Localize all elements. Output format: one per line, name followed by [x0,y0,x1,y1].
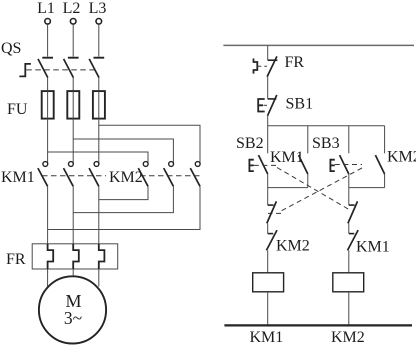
KM1 main contact 2 blade [64,168,74,186]
FR NC contact blade [267,56,277,76]
terminal circle L2 [70,19,76,25]
wire QS to FU2 [72,78,74,92]
KM2 main contact 3 circle [195,162,200,167]
wire FR to motor (phase3) [98,269,100,287]
KM2 linkage dashed line [140,175,201,177]
svg-text:KM2: KM2 [331,329,365,345]
wire SB1 to node [267,116,269,126]
svg-text:3~: 3~ [64,308,82,328]
button SB1 NC bar [268,98,277,100]
interlock dashed link SB2 to right NC [254,165,349,209]
button SB1 NC blade [268,95,277,116]
svg-text:KM1: KM1 [356,239,390,256]
KM2 main contact 1 circle [143,162,148,167]
thermal relay FR box [32,244,118,269]
terminal circle L1 [45,19,51,25]
button SB3 NO blade [340,155,349,174]
KM2 main contact 2 circle [169,162,174,167]
QS pole 1 blade [38,59,48,78]
coil KM2 rectangle [333,273,364,292]
wire SB3 to right branch node [348,174,350,188]
terminal circle L3 [96,19,102,25]
QS manual actuator [19,64,31,77]
wire KM1 pole2 down to FR [72,186,74,244]
crossover wire KM2 pole1 to phase3 [99,186,148,199]
wire to KM2 NC [267,223,269,233]
fuse FU2 [67,91,79,119]
svg-text:KM2: KM2 [109,169,143,186]
left branch bottom horizontal [268,187,308,189]
fuse FU1 [42,91,54,119]
contact SB3 NC blade (left branch) [267,201,277,223]
wire QS to FU3 [98,78,100,92]
fuse FU3 [93,91,105,119]
wire L3 to QS [98,24,100,56]
KM2 main contact 3 blade [190,168,200,186]
SB1 actuator dashed link [264,104,269,106]
svg-text:KM1: KM1 [270,149,304,166]
wire to KM1 NC [348,223,350,233]
wire FR to motor (phase1) [47,269,49,287]
wire node to SB2 [267,126,269,154]
contact KM2 NC bar [268,233,274,235]
contact KM1 NC blade [348,230,359,250]
wire node to KM1 aux [307,126,309,154]
wire rail to FR contact [267,45,269,60]
wire FU3 to KM1 pole3 [98,119,100,164]
QS pole 3 blade [89,59,99,78]
button SB1 actuator E [258,99,265,112]
svg-text:FU: FU [7,101,28,118]
FR thermal actuator symbol [254,59,258,74]
svg-text:QS: QS [1,40,21,57]
wire L2 to QS [72,24,74,56]
svg-text:KM2: KM2 [276,238,310,255]
FR actuator dashed link [257,65,267,67]
button SB2 actuator E [249,160,253,171]
svg-text:FR: FR [285,54,305,71]
wire KM1 NC to coil KM2 [348,250,350,272]
FR heater element 3 [99,244,105,269]
wire FR to SB1 [267,77,269,99]
contact SB2 NC blade (right branch) [348,201,358,223]
wire coil KM2 to bottom rail [348,292,350,326]
crossover wire KM2 pole2 to phase2 [73,186,173,212]
button SB3 actuator E [330,160,334,171]
FR NC contact bar [268,59,278,61]
wire KM1 pole1 down to FR [47,186,49,244]
KM1 main contact 3 blade [89,168,99,186]
wire KM1 pole3 down to FR [98,186,100,244]
FR heater element 1 [48,244,54,269]
wire FU1 to KM1 pole1 [47,119,49,164]
contact KM2 NC blade [266,230,277,250]
contact SB3 NC bar (left branch) [268,204,274,206]
KM1 main contact 1 circle [43,162,48,167]
wire coil KM1 to bottom rail [267,292,269,326]
wire KM2 aux to right branch node [384,174,386,188]
svg-text:SB1: SB1 [286,96,314,113]
control bottom rail [224,324,412,326]
QS pole 2 blade [64,59,74,78]
svg-text:KM1: KM1 [250,329,284,345]
wire right branch to SB2 NC [348,188,350,206]
QS linkage dashed line [26,69,95,71]
svg-text:L1: L1 [37,0,55,17]
svg-text:KM2: KM2 [387,149,416,166]
wire KM1 aux to left branch node [307,174,309,188]
wire node to KM2 aux [384,126,386,154]
interlock dashed link SB3 to left NC [268,165,362,214]
KM1 main contact 2 circle [69,162,74,167]
wire QS to FU1 [47,78,49,92]
wire KM2 NC to coil KM1 [267,250,269,272]
QS pole 3 contact bar [94,57,105,59]
svg-text:KM1: KM1 [1,169,35,186]
coil KM1 rectangle [253,273,284,292]
svg-text:L3: L3 [89,0,107,17]
button SB2 NO blade [259,155,268,174]
wire FR to motor (phase2) [72,269,74,276]
KM1 main contact 3 circle [94,162,99,167]
svg-text:FR: FR [6,251,26,268]
node split horizontal [268,125,385,127]
crossover wire KM2 pole3 to phase1 [48,186,200,229]
branch wire L2 to KM2 pole2 [73,139,173,164]
wire node to SB3 [348,126,350,154]
wire FU2 to KM1 pole2 [72,119,74,164]
KM2 main contact 1 blade [138,168,148,186]
KM1 linkage dashed line [42,175,106,177]
motor M circle [39,276,106,343]
right branch bottom horizontal [349,187,385,189]
wire L1 to QS [47,24,49,56]
svg-text:L2: L2 [63,0,81,17]
branch wire L3 to KM2 pole3 [99,125,200,163]
QS pole 2 contact bar [68,57,79,59]
control top rail [223,44,414,46]
contact SB2 NC bar (right branch) [349,204,355,206]
branch wire L1 to KM2 pole1 [48,152,148,164]
svg-text:SB2: SB2 [236,135,264,152]
svg-text:SB3: SB3 [312,135,340,152]
KM1 main contact 1 blade [38,168,48,186]
contact KM1 NC bar [349,233,355,235]
FR heater element 2 [73,244,79,269]
QS pole 1 contact bar [42,57,53,59]
wire SB2 to left branch node [267,174,269,188]
KM2 main contact 2 blade [164,168,174,186]
contact KM1 aux NO blade [299,155,308,174]
contact KM2 aux NO blade [375,155,384,174]
wire left branch to SB3 NC [267,188,269,206]
